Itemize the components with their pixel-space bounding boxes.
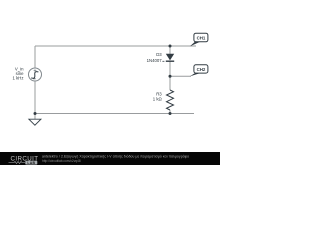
resistor R3 zigzag xyxy=(167,90,174,110)
label R3 1kOhm xyxy=(153,92,163,102)
svg-text:antelektro / 2.Εξαγωγή Χαρακτη: antelektro / 2.Εξαγωγή Χαρακτηριστικής I… xyxy=(42,155,189,159)
voltage source minus mark xyxy=(33,78,35,80)
wire resistor bottom to junction xyxy=(169,110,171,114)
diode D3 triangle xyxy=(166,54,174,61)
svg-text:1N4007: 1N4007 xyxy=(147,58,163,63)
node junction top (diode branch) xyxy=(169,45,172,48)
voltage source plus mark xyxy=(34,69,37,72)
probe flag CH2 box xyxy=(194,65,208,73)
voltage source V_in circle xyxy=(29,68,42,81)
svg-text:CH2: CH2 xyxy=(197,67,206,72)
node junction bottom (resistor) xyxy=(169,112,172,115)
footer logo resistor line xyxy=(9,162,26,164)
footer bar xyxy=(0,152,220,165)
svg-text:LAB: LAB xyxy=(27,161,35,165)
label V_in sine 1kHz xyxy=(13,67,25,81)
svg-text:1 kHz: 1 kHz xyxy=(13,76,24,81)
voltage source sine symbol xyxy=(31,72,38,79)
svg-text:http://circuitlab.com/c2vq48: http://circuitlab.com/c2vq48 xyxy=(42,159,81,163)
probe flag CH2 tail xyxy=(190,73,202,77)
wire from source bottom to ground junction xyxy=(34,81,36,114)
footer logo LAB box xyxy=(25,161,37,165)
wire CH2 branch horizontal xyxy=(170,75,191,77)
wire bottom horizontal xyxy=(35,113,194,115)
probe flag CH1 box xyxy=(194,33,208,42)
probe flag CH1 tail xyxy=(190,41,202,46)
svg-text:CH1: CH1 xyxy=(197,35,206,40)
label dash after 1N4007 xyxy=(162,60,164,62)
node junction CH2 xyxy=(169,75,172,78)
node junction ground xyxy=(34,112,37,115)
wire diode cathode to CH2 node xyxy=(169,62,171,77)
svg-text:D3: D3 xyxy=(156,52,162,57)
wire left vertical from top corner down to source xyxy=(34,46,36,68)
diode D3 cathode bar xyxy=(166,60,174,62)
label D3 1N4007 xyxy=(147,52,163,63)
wire CH2 node to resistor top xyxy=(169,76,171,90)
wire diode anode from top junction xyxy=(169,46,171,54)
wire top horizontal from source to CH1 xyxy=(35,45,196,47)
wire ground stub xyxy=(34,114,36,120)
ground symbol xyxy=(29,119,41,125)
svg-text:1 kΩ: 1 kΩ xyxy=(153,96,163,101)
